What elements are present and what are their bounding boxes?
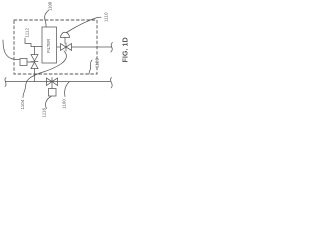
capacitor box S1 (left small square) xyxy=(20,59,27,66)
enclosure dashed box (module boundary) xyxy=(14,20,97,74)
svg-text:1112: 1112 xyxy=(25,28,30,38)
leader from left edge into S1 xyxy=(3,40,20,60)
capacitor box S2 (below bus) xyxy=(49,89,57,97)
wire: left stub to block U1 xyxy=(25,38,42,47)
leader: label 1120 to box bottom edge xyxy=(89,60,92,74)
stub: F2 to square S2 xyxy=(51,86,53,89)
leader: bus to bottom label 1100 xyxy=(65,82,69,97)
svg-text:FIG. 1D: FIG. 1D xyxy=(121,37,130,62)
TVS diode pair D1 xyxy=(31,47,38,82)
break squiggle left end of bus xyxy=(5,78,6,87)
break squiggle right end of bus xyxy=(111,78,113,88)
break squiggle at right end of RX line xyxy=(111,43,113,53)
svg-text:1120: 1120 xyxy=(95,58,100,68)
svg-text:1100: 1100 xyxy=(62,99,67,109)
leader: top label 1108 to block U1 xyxy=(45,11,49,28)
stem: dome to F1 xyxy=(64,38,66,44)
wire: block U1 to F1 xyxy=(57,46,61,48)
svg-text:1104: 1104 xyxy=(20,99,25,109)
wire: F1 to right break (RX line) xyxy=(72,46,112,48)
svg-text:FILTER: FILTER xyxy=(46,39,51,53)
svg-text:1108: 1108 xyxy=(48,1,53,11)
bowtie diode F2 on bus xyxy=(47,78,58,87)
leader: dome to top-right label 1110 xyxy=(67,17,102,32)
svg-text:1116: 1116 xyxy=(42,108,47,118)
bus line (antenna bus) xyxy=(6,81,111,83)
leader: S2 to bottom label 1116 xyxy=(46,97,51,109)
bowtie diode F1 on RX line xyxy=(61,43,72,51)
svg-text:1110: 1110 xyxy=(104,12,109,22)
wire: S1 to diode node xyxy=(27,61,35,63)
filter block U1 xyxy=(42,27,57,63)
long leader: F1 to bottom-left label 1104 xyxy=(23,51,66,98)
dome (shunt element cap) above F1 xyxy=(61,32,70,37)
